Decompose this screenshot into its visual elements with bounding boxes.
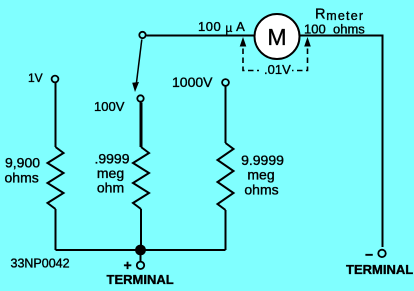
switch arm with arrow [132, 40, 142, 93]
svg-text:33NP0042: 33NP0042 [11, 257, 70, 271]
svg-text:9,900: 9,900 [5, 155, 40, 171]
svg-text:M: M [267, 24, 286, 50]
svg-text:−: − [365, 247, 373, 263]
svg-text:+: + [124, 257, 132, 273]
terminal 1000V [172, 74, 229, 90]
resistor R3 [218, 143, 234, 210]
wire 100V terminal down to R2 [140, 103, 143, 148]
terminal 1V [28, 71, 58, 85]
wire R2 bottom to junction [140, 209, 142, 250]
svg-text:TERMINAL: TERMINAL [346, 262, 413, 277]
svg-text:ohms: ohms [5, 170, 39, 186]
wire junction to + terminal [140, 250, 142, 261]
svg-text:100ohms: 100ohms [304, 22, 365, 37]
wire R1 bottom to bus [55, 209, 57, 250]
wire bottom bus [56, 249, 226, 251]
svg-text:1000V: 1000V [172, 74, 213, 90]
svg-text:meg: meg [247, 167, 274, 183]
svg-text:100 µ A: 100 µ A [198, 19, 245, 35]
voltmeter sense bracket .01V [240, 37, 311, 77]
switch pivot [139, 32, 145, 38]
terminal 100V [94, 95, 144, 114]
resistor R1 [48, 147, 64, 209]
svg-text:.01V: .01V [264, 62, 291, 77]
svg-text:TERMINAL: TERMINAL [107, 272, 174, 287]
meter M [255, 14, 300, 59]
svg-text:100V: 100V [94, 99, 125, 114]
terminal minus [346, 247, 413, 278]
wire R3 bottom to bus [225, 210, 227, 250]
junction node [135, 245, 146, 256]
wire meter to right side and down [300, 36, 383, 248]
svg-text:ohms: ohms [244, 182, 278, 198]
wire switch pivot to meter [147, 35, 255, 37]
wire 1V terminal down to R1 [55, 83, 57, 147]
wire 1000V terminal down to R3 [225, 87, 227, 144]
svg-text:1V: 1V [28, 71, 43, 85]
resistor R2 [133, 147, 149, 209]
svg-text:ohm: ohm [97, 180, 124, 196]
terminal + [107, 257, 174, 287]
